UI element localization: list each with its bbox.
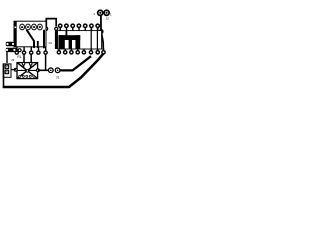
wire bottom ground trace xyxy=(3,54,104,87)
connector J3 pad 2 xyxy=(5,70,10,75)
connector J1 pad 2 xyxy=(55,67,61,73)
wire RL1 to J3 xyxy=(11,69,16,71)
trace bus under U2 xyxy=(59,31,81,49)
connector J3 pad 1 xyxy=(5,65,10,70)
IC U1 body xyxy=(14,21,46,47)
svg-text:J3: J3 xyxy=(11,58,15,62)
pad node xyxy=(18,48,22,52)
RL1 bottom pads xyxy=(18,75,35,78)
connector J2 pad 1 xyxy=(97,9,104,16)
wires U1 pads to RL1 xyxy=(23,54,25,63)
thick trace down from pad xyxy=(55,31,57,50)
wire through pin x=97 xyxy=(97,28,98,51)
via pad on J2 trace xyxy=(99,29,104,34)
connector J2 pad 2 xyxy=(103,9,110,16)
wire to J3 xyxy=(6,52,8,63)
wire U1 pad5 to J1 line xyxy=(45,54,47,70)
wire RL1 to J1 xyxy=(38,69,49,71)
svg-text:J1: J1 xyxy=(56,75,60,79)
wire board left border xyxy=(3,63,5,86)
svg-text:R1: R1 xyxy=(17,55,21,59)
connector J3 outline xyxy=(3,64,11,77)
traces inside U1 xyxy=(27,30,44,49)
IC U2 top pads row xyxy=(58,23,100,31)
IC U2 body xyxy=(58,31,102,49)
pad U1 pin right xyxy=(44,27,49,32)
svg-text:J2: J2 xyxy=(106,17,110,21)
wire J1 to U2 pad xyxy=(60,56,91,70)
svg-text:D1: D1 xyxy=(49,41,53,45)
wire from J2 to board xyxy=(101,16,103,50)
RL1 top pads xyxy=(22,62,33,66)
component D2 (left small footprint) xyxy=(6,42,15,47)
pad at link end xyxy=(54,27,58,31)
relay RL1 body with X xyxy=(17,63,38,79)
component D3 (left small footprint) xyxy=(6,48,17,52)
IC U1 bottom pads row xyxy=(14,47,47,55)
wire U1 to U2 top link xyxy=(46,19,56,27)
IC U1 top oval pads xyxy=(20,24,43,30)
RL1 centre pad xyxy=(26,69,29,72)
IC U2 bottom pads row xyxy=(57,49,106,55)
wire through pin x=91 xyxy=(91,28,92,51)
RL1 side pads xyxy=(14,68,40,73)
connector J1 pad 1 xyxy=(48,67,54,73)
trace along U1 left edge xyxy=(14,21,17,47)
